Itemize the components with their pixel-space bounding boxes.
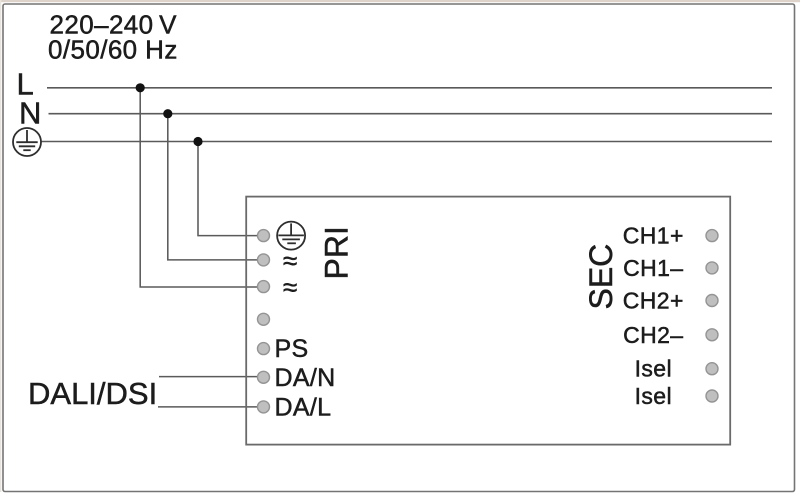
svg-text:CH2–: CH2– — [623, 322, 683, 348]
svg-text:0/50/60 Hz: 0/50/60 Hz — [48, 35, 178, 65]
svg-text:DA/N: DA/N — [275, 364, 336, 392]
svg-text:SEC: SEC — [583, 244, 619, 310]
svg-text:PRI: PRI — [319, 226, 355, 279]
svg-text:CH1–: CH1– — [623, 255, 683, 281]
svg-text:DA/L: DA/L — [275, 394, 332, 422]
svg-text:CH2+: CH2+ — [623, 288, 684, 314]
svg-text:N: N — [19, 96, 41, 131]
svg-text:Isel: Isel — [635, 383, 672, 409]
svg-text:Isel: Isel — [635, 356, 672, 382]
svg-text:PS: PS — [275, 335, 309, 363]
svg-text:DALI/DSI: DALI/DSI — [28, 376, 157, 411]
svg-text:≈: ≈ — [283, 272, 297, 302]
svg-text:CH1+: CH1+ — [623, 223, 684, 249]
svg-text:≈: ≈ — [283, 245, 297, 275]
